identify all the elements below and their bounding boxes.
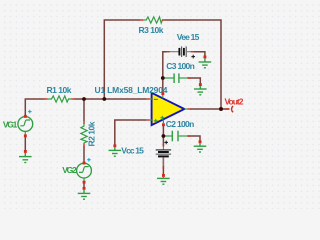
voltage source VG2: [77, 162, 92, 184]
ground under VG2: [78, 187, 91, 199]
svg-text:C2 100n: C2 100n: [166, 119, 195, 129]
ground under Vcc battery: [157, 174, 170, 184]
wire R2 bottom to VG2 top: [83, 146, 85, 163]
ground right of Vee: [199, 56, 212, 68]
ground at op-amp + input: [109, 144, 122, 156]
Vee battery + mark: [191, 55, 195, 59]
wire op-amp non-inverting input to ground: [115, 120, 147, 146]
V- pin stub (top): [162, 95, 164, 99]
Vout2 output terminal: [225, 106, 233, 112]
VG1 polarity + mark: [28, 110, 32, 114]
wire node N1 up and right to R3 left (feedback): [104, 20, 140, 99]
capacitor C3: [164, 73, 190, 83]
resistor R3: [140, 17, 165, 23]
battery Vcc: [156, 144, 171, 170]
capacitor C2: [165, 131, 191, 142]
svg-text:Vcc 15: Vcc 15: [121, 146, 144, 156]
svg-text:R2 10k: R2 10k: [87, 121, 97, 146]
wire VG2 bottom to ground: [83, 182, 85, 189]
Vcc battery + mark: [164, 141, 168, 145]
input pin stubs: [150, 98, 152, 100]
voltage source VG1: [18, 115, 33, 137]
wire Vee battery right to ground: [194, 52, 205, 57]
V+ pin stub (bottom): [162, 120, 164, 124]
wire C2 right to ground: [187, 136, 200, 141]
svg-text:R1 10k: R1 10k: [47, 85, 72, 95]
wire Vcc battery bottom to ground: [162, 158, 164, 176]
junction node N1 (R1/R2 junction): [82, 97, 86, 101]
ground under VG1: [19, 150, 32, 163]
output pin stub: [184, 108, 187, 110]
ground under C2: [194, 140, 207, 152]
resistor R2: [81, 121, 87, 147]
svg-text:R3 10k: R3 10k: [139, 25, 164, 35]
ground under C3: [194, 83, 207, 95]
svg-text:VG2: VG2: [62, 165, 77, 175]
junction Vee/C3 node: [161, 76, 165, 80]
battery Vee: [167, 46, 194, 57]
junction Vcc/C2 node: [162, 134, 166, 138]
V+ power marker: [160, 116, 164, 120]
wire R3 right down to output node: [165, 20, 221, 109]
svg-text:Vout2: Vout2: [225, 97, 244, 107]
svg-text:U1 LMx58_LM2904: U1 LMx58_LM2904: [95, 85, 168, 95]
svg-text:Vee 15: Vee 15: [177, 32, 200, 42]
wire op-amp V- pin up to Vee node: [163, 52, 167, 94]
non-inverting input marker: [154, 119, 158, 123]
wire op-amp output to Vout2 terminal: [190, 108, 230, 110]
wire node N1 down to R2 top: [83, 99, 85, 121]
wire VG1 bottom to ground: [24, 136, 26, 151]
wire op-amp V+ pin down to Vcc node: [162, 125, 164, 147]
inverting input marker: [154, 98, 158, 100]
wire C3 right to ground: [187, 78, 200, 84]
junction node N2 (R3 feedback tap): [102, 97, 106, 101]
junction output node: [219, 107, 223, 111]
wire R1 right to op-amp inverting input (node N1): [75, 98, 147, 100]
resistor R1: [45, 96, 75, 102]
svg-text:VG1: VG1: [3, 120, 18, 130]
wire VG1 top to R1 left: [25, 99, 44, 116]
VG2 polarity + mark: [87, 158, 91, 162]
svg-text:C3 100n: C3 100n: [166, 61, 195, 71]
op-amp U1 LMx58_LM2904: [147, 92, 191, 126]
